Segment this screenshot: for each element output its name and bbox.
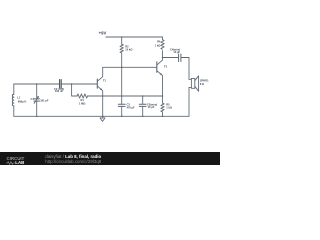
node junction ground rail / ground drop <box>102 116 104 118</box>
wire speaker bottom to ground rail <box>188 87 190 116</box>
wire collector node to C4 <box>163 57 179 59</box>
speaker SPKR1 value 8 Ohm <box>189 76 209 91</box>
svg-text:1 kΩ: 1 kΩ <box>166 106 172 110</box>
node junction base wire / R1 <box>71 83 73 85</box>
footer watermark bar <box>0 152 220 166</box>
svg-text:T2: T2 <box>164 64 168 68</box>
wire emitter bus <box>88 95 163 97</box>
capacitor C1 variable value 181 pF <box>30 84 48 116</box>
node junction emitter bus / T2 emitter <box>162 95 164 97</box>
svg-text:L1: L1 <box>17 96 21 100</box>
inductor L1 value 680u H <box>12 84 26 116</box>
capacitor C5 value 10 uF <box>139 96 157 116</box>
footer url line <box>45 159 101 164</box>
wire top supply rail <box>106 36 163 38</box>
wire T1 emitter to ground rail <box>102 96 104 116</box>
svg-text:+9V: +9V <box>99 31 107 36</box>
svg-text:10 µF: 10 µF <box>148 105 155 109</box>
svg-text:1 MΩ: 1 MΩ <box>79 102 85 106</box>
wire R4 bottom lead <box>162 51 164 58</box>
wire C2 to T1 base <box>62 83 98 85</box>
node junction rail/R2 <box>121 36 123 38</box>
capacitor C4 value 10 uF <box>170 47 181 61</box>
node junction ground rail / C5 <box>142 116 144 118</box>
CircuitLab logo word CIRCUIT <box>7 156 25 161</box>
svg-text:680µ H: 680µ H <box>18 100 27 104</box>
svg-text:1 kΩ: 1 kΩ <box>155 43 161 47</box>
node junction emitter bus / C5 <box>142 95 144 97</box>
node junction tank top / C1 <box>36 83 38 85</box>
svg-text:C1: C1 <box>30 97 34 101</box>
wire rail corner to R4 <box>162 37 164 40</box>
node junction tank bottom / C1 <box>36 116 38 118</box>
wire R1 left lead drop <box>72 84 77 96</box>
node junction T2 collector / R4 / C4 <box>162 57 164 59</box>
svg-text:10 µF: 10 µF <box>173 50 180 54</box>
capacitor C2 value 100 nF <box>54 80 64 94</box>
capacitor C3 value 470 uF <box>118 96 135 116</box>
resistor R5 value 1 kOhm <box>161 103 172 112</box>
transistor T1 <box>97 67 106 96</box>
wire R5 bottom lead <box>162 112 164 116</box>
svg-text:181 pF: 181 pF <box>40 99 49 103</box>
CircuitLab logo word LAB <box>15 160 24 165</box>
resistor R2 value 10 kOhm <box>120 44 132 53</box>
node junction collector bus / mid branch <box>121 67 123 69</box>
CircuitLab logo resistor squiggle <box>6 161 16 165</box>
wire mid vertical branch <box>121 67 123 96</box>
ground symbol <box>100 116 105 121</box>
wire T1 collector to T2 base <box>103 66 157 68</box>
wire R2 bottom lead <box>121 53 123 67</box>
node junction ground rail / R5 <box>162 116 164 118</box>
resistor R1 value 1 MOhm <box>77 94 88 106</box>
transistor T2 <box>157 58 168 104</box>
resistor R4 value 1 kOhm <box>155 39 164 49</box>
svg-text:8 Ω: 8 Ω <box>200 82 204 86</box>
svg-text:T1: T1 <box>103 78 107 82</box>
svg-text:470 µF: 470 µF <box>127 106 136 110</box>
node junction emitter bus / C3 <box>121 95 123 97</box>
footer title line <box>45 154 101 159</box>
wire C4 to speaker top <box>181 58 189 80</box>
wire R2 top lead <box>121 37 123 44</box>
svg-text:100 nF: 100 nF <box>55 89 64 93</box>
wire tank top <box>14 83 60 85</box>
node junction ground rail / C3 <box>121 116 123 118</box>
wire ground rail <box>14 115 189 117</box>
svg-text:10 kΩ: 10 kΩ <box>125 48 132 52</box>
svg-text:R4: R4 <box>157 39 161 43</box>
node junction emitter bus / ground drop <box>102 95 104 97</box>
